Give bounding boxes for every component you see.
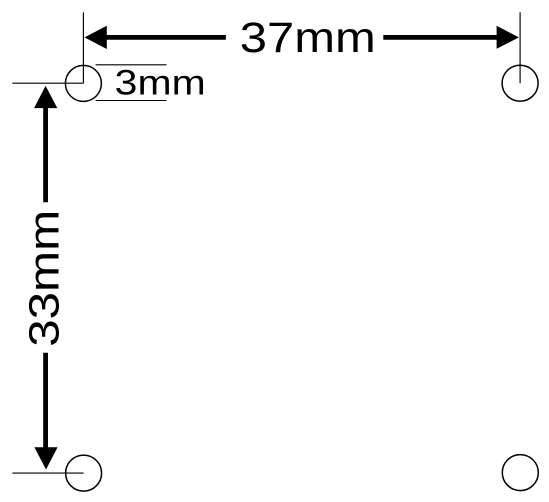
arrowhead 37mm left [85, 26, 107, 49]
arrowhead 33mm top [34, 86, 57, 108]
extension line top-left horizontal [12, 82, 83, 84]
svg-text:37mm: 37mm [240, 14, 376, 62]
hole bottom-right [502, 455, 538, 491]
extension line top-left vertical [82, 12, 84, 83]
svg-text:33mm: 33mm [21, 210, 69, 347]
diameter callout bottom tangent line [96, 100, 167, 102]
dimension line 37mm right segment [383, 35, 497, 40]
hole bottom-left [66, 455, 102, 491]
arrowhead 37mm right [497, 26, 519, 49]
extension line top-right vertical [519, 12, 521, 83]
svg-text:3mm: 3mm [115, 63, 206, 103]
diameter callout top tangent line [96, 64, 167, 66]
dimension line 33mm bottom segment [43, 353, 48, 448]
arrowhead 33mm bottom [34, 447, 57, 469]
hole top-right [502, 65, 538, 101]
hole top-left [65, 65, 101, 101]
extension line bottom-left horizontal [12, 472, 83, 474]
dimension line 37mm left segment [106, 35, 226, 40]
dimension line 33mm top segment [43, 108, 48, 203]
